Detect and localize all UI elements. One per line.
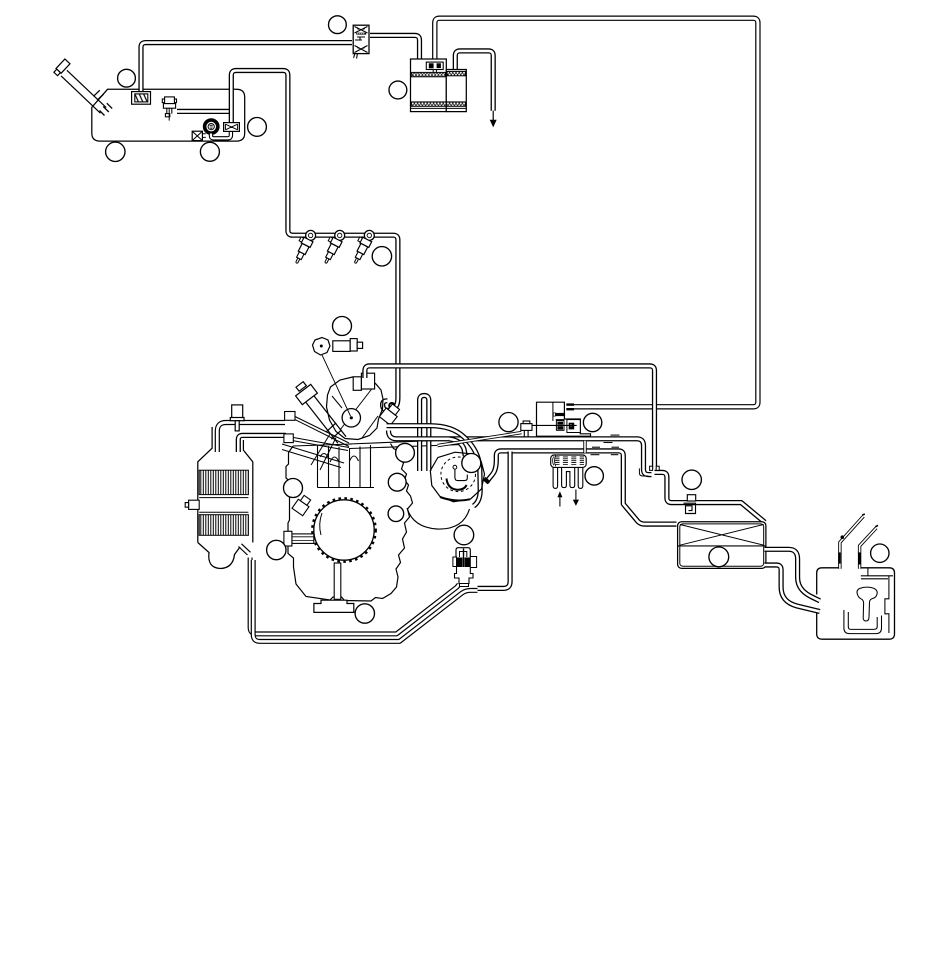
callout circle 4 [200, 142, 219, 161]
tank sender unit [162, 97, 176, 121]
purge valve output black ticks [566, 405, 574, 410]
thermo vacuum valve [453, 548, 477, 587]
fuel filler neck [61, 70, 106, 113]
reed valve body outline [198, 427, 253, 569]
wire intake neck right line [860, 528, 877, 569]
wire X-box lower outlet hose [765, 565, 820, 612]
wire sender-to-riser [177, 109, 229, 114]
bowtie fuel filter [224, 123, 240, 132]
fuel pipe curl end dot [389, 403, 394, 408]
valve cover top edges [349, 440, 463, 449]
wire reed-to-carb thin hoses [294, 417, 350, 451]
tank top unit (vapor valve, hatched) [132, 92, 151, 105]
canister top purge valve [426, 62, 443, 72]
vapor filter legs [553, 467, 583, 488]
intake manifold runners [318, 445, 375, 488]
wire reed-valve drain pipe B [253, 560, 477, 641]
vent arrow [490, 111, 497, 128]
callout circle 12 [396, 443, 415, 462]
wire vertical pair to thermo valve [478, 452, 511, 589]
carb top boxes [353, 373, 374, 390]
filter down arrow [573, 490, 579, 506]
carburetor body [327, 377, 384, 440]
wire canister-to-purgevalve long loop [435, 18, 758, 407]
wire intake neck left line [840, 516, 864, 569]
callout circle 9 [284, 479, 303, 498]
wire checkvalve-to-canister [370, 35, 420, 59]
fuel pump [205, 120, 218, 133]
dipstick slot [334, 563, 341, 599]
connector end fittings [639, 466, 659, 476]
fuel injector 3 [348, 227, 376, 265]
carb diaphragm cap [342, 409, 360, 427]
engine mount bracket [314, 600, 354, 612]
oil filler cap on reed valve [230, 405, 244, 431]
air cleaner X-box [678, 522, 766, 569]
callout circle 7 [372, 247, 391, 266]
wire thin hose to fitting [438, 433, 522, 446]
S-hose start tick [484, 479, 488, 483]
callout circle 21 [388, 506, 404, 522]
oil filler diagonal fitting [292, 494, 313, 516]
reed valve mid lines [199, 498, 248, 513]
purge control valve body [532, 402, 591, 436]
fuel injector 1 [290, 227, 318, 265]
callout circle 16 [585, 467, 603, 485]
reed valve fins upper band [199, 470, 248, 494]
resonator box [817, 568, 895, 639]
engine lower-right bulge [407, 508, 470, 529]
wire purge-to-filter stub [583, 441, 586, 453]
callout circle 19 [871, 544, 889, 562]
G-fitting [684, 495, 696, 514]
inline fuel filter cylinder [333, 339, 363, 352]
callout circle 22 [583, 413, 601, 431]
timing gear [312, 498, 376, 562]
callout circle 15 [454, 525, 474, 545]
reed valve fins lower band [199, 515, 248, 536]
wire tank-to-checkvalve [141, 43, 352, 92]
wire carb hose to distributor cap [449, 439, 465, 456]
callout circle 17 [682, 470, 701, 489]
wire reed-valve drain pipe A [250, 558, 459, 634]
distributor housing [430, 452, 489, 502]
wire reed-valve lower hose [238, 435, 286, 452]
air intake horn [296, 382, 347, 444]
engine top edge [293, 444, 352, 446]
fuel injector 2 [319, 227, 347, 265]
callout circle 10 [267, 540, 286, 559]
wire pump-to-bowtie [211, 131, 231, 138]
hose step box lower [284, 434, 293, 443]
charcoal canister body [411, 59, 467, 112]
wire carb-top to right drop [365, 366, 655, 469]
engine block outline [286, 444, 413, 602]
canister inner bottom line [411, 107, 467, 109]
wire distributor S-hose [487, 451, 677, 524]
resonator inner channels [844, 569, 893, 634]
hose connector nubs [591, 435, 620, 455]
hose step box upper [285, 412, 295, 421]
callout circle 2 [248, 118, 267, 137]
callout circle 11 [355, 604, 374, 623]
wire big sweep hose [387, 426, 481, 506]
callout circle 13 [499, 413, 518, 432]
vapor filter box [551, 455, 587, 467]
callout circle 20 [388, 473, 406, 491]
callout circle 5 [329, 16, 347, 34]
callout circle 1 [118, 69, 136, 87]
carburetor inner lines [332, 386, 378, 438]
wire X-box upper outlet hose [765, 549, 820, 601]
left bolt fitting [284, 531, 314, 546]
wire fuel line tank-to-rail [231, 71, 398, 411]
vacuum sensor pod [313, 338, 351, 417]
EGR diagonal fitting [379, 402, 401, 425]
reed valve left port [185, 500, 199, 509]
wire purge hose (carb to connector) [389, 431, 652, 475]
callout circle 6 [389, 81, 407, 99]
reed valve outlet clamp marks [239, 544, 251, 555]
spark wire lines [282, 434, 344, 470]
canister hatch bands [411, 71, 465, 106]
fuel filler cap [53, 59, 70, 76]
wire fuel return loop [420, 396, 429, 472]
intake neck clamp marks [838, 514, 878, 565]
wire reed-valve upper hose [217, 423, 285, 453]
filter up arrow [557, 491, 562, 506]
callout circle 8 [333, 317, 352, 336]
wire connector to X-box [655, 472, 765, 522]
wire canister vent [455, 51, 493, 111]
fuel tank outline [92, 89, 245, 141]
callout circle 3 [106, 142, 125, 161]
purge valve left fitting [521, 421, 532, 437]
callout circle 18 [709, 547, 729, 567]
canister divider line [445, 70, 447, 112]
callout circle 14 [462, 454, 481, 473]
filler neck clamp marks [94, 90, 113, 115]
two-way check valve [353, 25, 369, 58]
pump inlet box with X [192, 131, 206, 140]
